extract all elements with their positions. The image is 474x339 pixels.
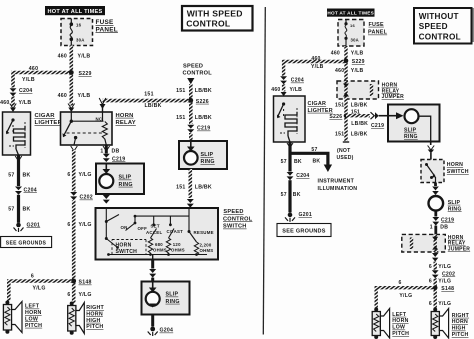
wire 6 Y/LG branch to left horn (right half) (376, 280, 435, 308)
svg-text:Y/LG: Y/LG (79, 292, 92, 298)
label LEFT HORN LOW PITCH (right half) (392, 312, 409, 337)
svg-text:BK: BK (294, 159, 302, 165)
bottom bus of speed control switch (107, 253, 207, 259)
label "HOT AT ALL TIMES" (left) (45, 6, 105, 15)
svg-text:460: 460 (58, 54, 67, 60)
svg-text:BK: BK (23, 172, 31, 178)
wire horn switch to slip ring (right lower) (432, 183, 439, 196)
cigar lighter (left) (3, 112, 31, 155)
svg-text:151: 151 (351, 110, 360, 116)
right horn (left half) (68, 302, 85, 335)
wire 1 DB slip ring to jumper (right) (430, 211, 454, 235)
speed control switch internals (105, 208, 214, 249)
wire 6 Y/LG to right horn (right half) (429, 288, 451, 308)
svg-text:PITCH: PITCH (25, 323, 42, 329)
svg-text:30A: 30A (351, 38, 359, 43)
wire 57 BK cigar lighter to ground (8, 156, 30, 187)
svg-text:PANEL: PANEL (96, 26, 118, 33)
svg-text:C204: C204 (296, 173, 309, 179)
wire 6 Y/LG horn relay down (67, 146, 91, 192)
SEE GROUNDS box (left) (1, 237, 52, 248)
splice S226 (right) (329, 113, 348, 120)
svg-text:RING: RING (201, 159, 215, 165)
svg-text:Y/LG: Y/LG (79, 222, 92, 228)
svg-text:CIGAR: CIGAR (308, 101, 327, 107)
svg-text:HOT AT ALL TIMES: HOT AT ALL TIMES (327, 11, 374, 16)
svg-text:Y/LB: Y/LB (78, 93, 91, 99)
label HORN RELAY JUMPER (upper) (382, 83, 404, 101)
svg-text:HIGH: HIGH (86, 318, 100, 324)
svg-text:460: 460 (0, 100, 9, 106)
svg-text:OHMS: OHMS (171, 247, 185, 252)
wire 151 LB/BK S226 to slip ring (right) (346, 110, 388, 129)
wire 151 LB/BK slip ring to speed control switch (176, 169, 212, 208)
svg-text:57: 57 (281, 159, 287, 165)
label CIGAR LIGHTER (right) (308, 101, 333, 114)
svg-text:RING: RING (404, 134, 418, 140)
fuse F16 30A (70, 19, 74, 46)
wire DB speed control switch to slip ring (bottom) (149, 260, 156, 282)
svg-text:PITCH: PITCH (452, 332, 469, 338)
slip ring (right half upper) (388, 105, 440, 142)
svg-text:HORN: HORN (116, 113, 134, 119)
svg-text:460: 460 (29, 66, 38, 72)
svg-text:ILLUMINATION: ILLUMINATION (318, 186, 358, 192)
wire 6 Y/LG to S148 (left) (67, 200, 91, 281)
wire 151 LB/BK horn relay to S226 (99, 92, 191, 112)
svg-text:SWITCH: SWITCH (447, 169, 469, 175)
ground G201 (left) (14, 222, 41, 232)
svg-text:(NOT: (NOT (337, 148, 351, 154)
svg-text:SLIP: SLIP (448, 200, 461, 206)
svg-text:RESUME: RESUME (194, 230, 214, 235)
connector below slip ring (right) (428, 142, 435, 160)
svg-text:RING: RING (166, 299, 180, 305)
svg-text:LEFT: LEFT (392, 312, 407, 318)
slip ring (right half lower, circle) (429, 196, 462, 212)
splice S229 (right) (344, 58, 365, 65)
wire 460 Y/LB branch to cigar lighter (left) (13, 66, 71, 87)
svg-text:SLIP: SLIP (119, 175, 132, 181)
svg-text:HIGH: HIGH (452, 326, 466, 332)
svg-text:FUSE: FUSE (96, 19, 115, 26)
svg-text:2,200: 2,200 (200, 243, 212, 248)
slip ring (bottom, left half) (142, 282, 190, 315)
svg-text:JUMPER: JUMPER (382, 94, 404, 100)
svg-text:57: 57 (8, 206, 14, 212)
svg-text:Y/LG: Y/LG (438, 301, 451, 307)
scan artifact gray band top right (471, 8, 474, 42)
svg-text:S148: S148 (441, 286, 454, 292)
connector C204 (left upper) (10, 88, 33, 96)
splice S148 (left) (71, 279, 91, 286)
svg-text:Y/LG: Y/LG (438, 264, 451, 270)
svg-text:6: 6 (429, 279, 432, 285)
horn switch (inside speed control switch) (112, 240, 146, 256)
svg-text:Y/LB: Y/LB (78, 54, 91, 60)
connector C204 (right lower) (287, 172, 310, 180)
svg-text:57: 57 (281, 192, 287, 198)
fuse panel (right) dashed box (338, 20, 364, 47)
svg-text:C204: C204 (24, 187, 37, 193)
ground G201 (right) (285, 212, 312, 222)
label "HOT AT ALL TIMES" (right) (327, 9, 375, 17)
wire 6 Y/LG jumper to C202 (right) (429, 253, 451, 270)
splice S226 (left) (188, 98, 209, 105)
svg-text:INSTRUMENT: INSTRUMENT (318, 178, 355, 184)
svg-text:LIGHTER: LIGHTER (308, 108, 333, 114)
divider line between halves (263, 7, 265, 335)
resistor 120 OHMS (166, 238, 185, 255)
wire 57 BK lower (right) (281, 180, 301, 212)
svg-text:151: 151 (335, 132, 344, 138)
svg-text:PITCH: PITCH (86, 324, 103, 330)
svg-text:6: 6 (67, 172, 70, 178)
svg-text:WITHOUT: WITHOUT (419, 12, 459, 21)
svg-text:460: 460 (271, 87, 280, 93)
svg-text:Y/LB: Y/LB (311, 64, 324, 70)
svg-text:C219: C219 (441, 217, 454, 223)
svg-text:1: 1 (430, 224, 433, 230)
label (NOT USED) (337, 148, 354, 161)
svg-text:SEE GROUNDS: SEE GROUNDS (282, 229, 325, 235)
svg-text:151: 151 (176, 115, 185, 121)
svg-text:151: 151 (335, 103, 344, 109)
label HORN RELAY (116, 113, 136, 126)
svg-text:CIGAR: CIGAR (35, 113, 56, 119)
wire 460 Y/LB into cigar lighter (left) (0, 96, 31, 112)
svg-text:RING: RING (448, 206, 462, 212)
connector C204 (left lower) (15, 187, 37, 195)
svg-text:OHMS: OHMS (153, 247, 167, 252)
wire 460 Y/LB into cigar lighter (right) (271, 84, 302, 96)
svg-text:SLIP: SLIP (404, 128, 417, 134)
svg-text:LB/BK: LB/BK (195, 88, 212, 94)
label WITHOUT SPEED CONTROL (414, 8, 472, 44)
wire 6 Y/LG to right horn (67, 281, 91, 303)
left horn (right half) (372, 308, 389, 339)
svg-text:LB/BK: LB/BK (195, 185, 212, 191)
resistor 2200 OHMS (194, 242, 213, 255)
svg-text:JUMPER: JUMPER (448, 246, 470, 252)
label RIGHT HORN HIGH PITCH (right half) (452, 313, 470, 338)
svg-text:SEE GROUNDS: SEE GROUNDS (6, 241, 47, 247)
resistor 680 OHMS (148, 238, 167, 255)
svg-text:HORN: HORN (447, 162, 463, 168)
svg-text:16: 16 (76, 23, 82, 28)
svg-text:6: 6 (429, 301, 432, 307)
svg-text:CONTROL: CONTROL (183, 71, 213, 77)
svg-text:Y/LB: Y/LB (351, 68, 364, 74)
ground G204 (148, 315, 174, 337)
svg-text:C202: C202 (80, 195, 93, 201)
svg-text:RIGHT: RIGHT (452, 313, 470, 319)
svg-text:Y/LG: Y/LG (33, 285, 46, 291)
svg-text:BK: BK (23, 206, 31, 212)
fuse panel (left) dashed box (61, 19, 93, 46)
wire 460 Y/LB branch to cigar lighter (right) (284, 56, 346, 76)
svg-text:SPEED: SPEED (419, 22, 448, 31)
fuse F16 30A (right) (344, 20, 347, 47)
svg-text:120: 120 (173, 242, 181, 247)
svg-text:6: 6 (31, 274, 34, 280)
svg-text:LB/BK: LB/BK (351, 103, 368, 109)
wire 57 BK lower (8, 195, 30, 223)
svg-text:SPEED: SPEED (183, 64, 203, 70)
svg-text:C219: C219 (371, 123, 384, 129)
svg-text:DB: DB (112, 148, 120, 154)
svg-text:HORN: HORN (452, 319, 468, 325)
svg-text:BK: BK (313, 158, 321, 164)
horn switch (right half) dashed box (421, 160, 444, 183)
label WITH SPEED CONTROL (182, 6, 253, 31)
svg-text:C219: C219 (197, 126, 210, 132)
svg-text:CONTROL: CONTROL (223, 216, 253, 222)
label LEFT HORN LOW PITCH (left half) (25, 304, 42, 329)
svg-text:RIGHT: RIGHT (86, 305, 104, 311)
svg-text:LB/BK: LB/BK (351, 121, 368, 127)
svg-text:ON: ON (121, 225, 128, 230)
svg-text:USED): USED) (337, 155, 354, 161)
svg-text:460: 460 (335, 68, 344, 74)
svg-text:57: 57 (311, 147, 317, 153)
svg-text:WITH SPEED: WITH SPEED (187, 9, 243, 19)
svg-text:HOT AT ALL TIMES: HOT AT ALL TIMES (48, 9, 103, 15)
horn relay jumper (upper) dashed box (337, 81, 379, 99)
label SPEED CONTROL SWITCH (223, 209, 253, 229)
svg-text:SLIP: SLIP (166, 292, 179, 298)
svg-text:PITCH: PITCH (392, 331, 409, 337)
svg-text:Y/LB: Y/LB (290, 87, 303, 93)
slip ring (upper right of left half) (179, 141, 227, 169)
svg-text:DB: DB (440, 224, 448, 230)
wire 460 Y/LB fuse to horn relay (58, 46, 91, 106)
svg-text:SET: SET (151, 224, 160, 229)
svg-text:S226: S226 (329, 114, 342, 120)
svg-text:151: 151 (144, 92, 153, 98)
svg-text:RING: RING (119, 182, 133, 188)
svg-text:151: 151 (176, 88, 185, 94)
svg-text:C202: C202 (442, 271, 455, 277)
wire 57 BK branch to instrument illumination (290, 147, 332, 172)
svg-text:RELAY: RELAY (116, 120, 136, 126)
svg-text:57: 57 (8, 172, 14, 178)
left horn (left half) (3, 301, 22, 334)
svg-text:Y/LG: Y/LG (399, 293, 412, 299)
svg-text:Y/LB: Y/LB (19, 100, 32, 106)
slip ring (left, steering column) (96, 164, 144, 204)
connector C204 (right upper) (280, 76, 304, 84)
svg-text:S226: S226 (196, 99, 209, 105)
svg-text:CONTROL: CONTROL (419, 33, 461, 42)
svg-text:SWITCH: SWITCH (223, 224, 247, 230)
wire 151 LB/BK jumper to S226 (right) (335, 99, 368, 142)
svg-text:COAST: COAST (167, 229, 184, 234)
wire 6 Y/LG branch to left horn (9, 274, 74, 301)
speed control source arrow (183, 64, 213, 85)
svg-text:LOW: LOW (25, 316, 38, 322)
svg-text:6: 6 (398, 280, 401, 286)
label HORN RELAY JUMPER (lower) (448, 235, 470, 253)
horn relay jumper (lower) dashed box (402, 234, 446, 252)
svg-text:16: 16 (350, 23, 355, 28)
splice S148 (right) (433, 285, 454, 292)
svg-text:G201: G201 (299, 212, 312, 218)
svg-text:LEFT: LEFT (25, 304, 40, 310)
svg-text:HORN: HORN (116, 242, 132, 248)
SEE GROUNDS box (right) (277, 224, 331, 237)
svg-text:Y/LB: Y/LB (22, 77, 35, 83)
wire 460 Y/LB fuse to S229 (right) (331, 46, 364, 81)
svg-text:6: 6 (67, 222, 70, 228)
svg-text:C219: C219 (112, 156, 125, 162)
svg-text:BK: BK (293, 192, 301, 198)
svg-text:C204: C204 (19, 88, 32, 94)
label FUSE PANEL (right) (368, 22, 388, 36)
svg-text:6: 6 (429, 264, 432, 270)
wire 57 BK cigar lighter to ground (right) (281, 143, 302, 172)
svg-text:SPEED: SPEED (223, 209, 243, 215)
right horn (right half) (431, 308, 448, 339)
svg-text:460: 460 (331, 51, 340, 57)
label HORN SWITCH (right) (447, 162, 469, 175)
svg-text:460: 460 (58, 93, 67, 99)
cigar lighter (right) (274, 96, 306, 142)
svg-text:Y/LB: Y/LB (351, 51, 364, 57)
label INSTRUMENT ILLUMINATION (318, 178, 358, 192)
connector C202 (left) (70, 192, 93, 201)
svg-text:CONTROL: CONTROL (186, 19, 230, 29)
wire 1 DB horn relay to slip ring (left) (100, 145, 119, 154)
svg-text:460: 460 (311, 56, 320, 62)
svg-text:1: 1 (100, 148, 103, 154)
label RIGHT HORN HIGH PITCH (left half) (86, 305, 104, 330)
svg-text:G204: G204 (160, 328, 174, 334)
svg-text:SLIP: SLIP (201, 152, 214, 158)
svg-text:Y/LG: Y/LG (438, 279, 451, 285)
svg-text:PANEL: PANEL (368, 30, 388, 36)
svg-text:OHMS: OHMS (200, 248, 214, 253)
wire 151 LB/BK speed control to S226 (176, 84, 212, 124)
svg-text:HORN: HORN (86, 311, 103, 317)
svg-text:680: 680 (155, 242, 163, 247)
connector C219 (left, to slip ring) (187, 125, 210, 141)
svg-text:Y/LG: Y/LG (79, 172, 92, 178)
svg-text:S148: S148 (79, 280, 92, 286)
svg-text:LB/BK: LB/BK (145, 103, 162, 109)
label CIGAR LIGHTER (left) (35, 113, 63, 126)
speed control switch S1 (96, 208, 219, 260)
connector C202 (right) (432, 270, 455, 278)
connector pin into relay from fuse wire (68, 104, 75, 113)
svg-text:6: 6 (67, 292, 70, 298)
svg-text:LB/BK: LB/BK (195, 115, 212, 121)
svg-text:C204: C204 (291, 78, 304, 84)
svg-text:FUSE: FUSE (369, 22, 385, 28)
svg-text:HORN: HORN (25, 310, 42, 316)
svg-text:151: 151 (176, 185, 185, 191)
svg-text:HORN: HORN (392, 318, 408, 324)
connector C219 (left, under horn relay) (103, 154, 126, 163)
svg-text:30A: 30A (76, 37, 85, 42)
svg-text:G201: G201 (27, 222, 41, 228)
wire 6 Y/LG C202 to S148 (right) (429, 278, 451, 287)
svg-text:S229: S229 (352, 59, 365, 65)
splice S229 (left) (69, 70, 92, 77)
svg-text:S229: S229 (79, 71, 92, 77)
svg-text:LOW: LOW (392, 325, 405, 331)
svg-text:LIGHTER: LIGHTER (35, 120, 63, 126)
horn relay U1 (61, 112, 113, 145)
svg-text:LB/BK: LB/BK (351, 132, 368, 138)
label FUSE PANEL (left) (96, 19, 118, 33)
